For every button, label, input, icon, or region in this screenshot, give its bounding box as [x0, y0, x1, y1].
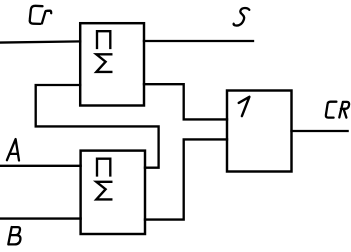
wire U1 carry to OR input 1	[144, 84, 227, 119]
label CR : letter C	[326, 102, 337, 118]
label CR : letter R	[339, 102, 349, 118]
wire B input	[0, 217, 81, 219]
label S	[234, 8, 250, 26]
label Cr : letter C	[30, 6, 43, 24]
OR gate U3	[227, 91, 292, 172]
half-adder U1 (top box)	[80, 23, 144, 105]
wire S output	[144, 40, 253, 42]
wire U2 sum to U1 input (loop)	[36, 85, 159, 168]
glyph Pi in U2	[97, 159, 110, 176]
glyph Sigma in U1	[96, 54, 111, 72]
label Cr : letter r	[42, 11, 51, 24]
label B	[8, 227, 20, 244]
label 1 in OR gate	[239, 97, 250, 116]
glyph Pi in U1	[97, 31, 110, 48]
glyph Sigma in U2	[96, 182, 111, 200]
wire A input	[0, 165, 81, 167]
half-adder U2 (bottom box)	[81, 151, 145, 234]
wire Cr input	[0, 41, 80, 42]
wire U2 carry to OR input 2	[145, 139, 227, 219]
label A	[7, 139, 19, 160]
wire CR output	[292, 130, 348, 132]
